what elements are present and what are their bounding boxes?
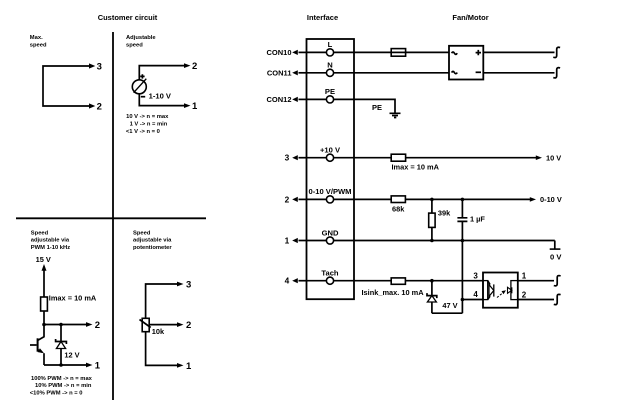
svg-text:Speed: Speed	[133, 230, 151, 236]
svg-text:2: 2	[186, 320, 191, 331]
svg-text:1-10 V: 1-10 V	[149, 92, 172, 101]
terminal PE	[307, 87, 355, 103]
zener diode ZD1 cathode bar	[56, 339, 67, 344]
wire motor L out	[483, 51, 554, 53]
label Speed adjustable via PWM 1-10 kHz	[31, 230, 70, 251]
wire 0-10V to resistor	[354, 198, 391, 200]
wire GND rail	[354, 240, 555, 242]
wire to 39k	[431, 199, 433, 213]
capacitor C 1uF	[457, 218, 467, 222]
note PWM mapping	[30, 376, 93, 397]
wire pot bottom to node 1	[146, 332, 178, 366]
stub CON11	[267, 69, 307, 78]
svg-text:4: 4	[473, 290, 478, 299]
junction GND 39k	[430, 239, 434, 243]
svg-text:CON11: CON11	[267, 69, 292, 78]
svg-text:<1 V -> n = 0: <1 V -> n = 0	[126, 129, 160, 135]
svg-text:Speed: Speed	[31, 230, 49, 236]
motor symbol ac top	[452, 52, 458, 54]
svg-text:3: 3	[285, 153, 290, 163]
arrow up 15V	[42, 264, 47, 271]
optocoupler light arrow	[497, 292, 505, 298]
svg-text:10 V: 10 V	[546, 154, 561, 163]
svg-text:+10 V: +10 V	[320, 146, 341, 155]
wire pot top to node 3	[146, 284, 178, 318]
label Speed adjustable via potentiometer	[133, 230, 172, 251]
svg-text:1: 1	[192, 101, 198, 112]
vertical divider of customer-circuit panel	[112, 32, 114, 400]
svg-text:Customer circuit: Customer circuit	[98, 13, 158, 22]
svg-text:10k: 10k	[152, 327, 165, 336]
svg-text:N: N	[327, 61, 332, 70]
interface box	[307, 39, 355, 299]
wire break N	[553, 68, 560, 78]
resistor current-limit	[41, 297, 48, 311]
wire pin2 out	[518, 299, 554, 301]
svg-text:3: 3	[97, 61, 102, 72]
junction cap tap	[461, 198, 465, 202]
svg-text:10 V -> n = max: 10 V -> n = max	[126, 114, 169, 120]
svg-text:Isink_max. 10 mA: Isink_max. 10 mA	[362, 288, 425, 297]
arrow to node 1	[177, 363, 184, 368]
arrow to node 2	[86, 322, 93, 327]
svg-text:4: 4	[285, 276, 290, 286]
wire N to motor	[354, 72, 449, 74]
transistor Q1 base lead	[30, 344, 37, 346]
svg-text:PWM 1-10 kHz: PWM 1-10 kHz	[31, 245, 70, 251]
svg-text:speed: speed	[126, 42, 143, 48]
terminal 0V bar	[550, 248, 561, 250]
wire resistor to 0-10V	[405, 198, 530, 200]
wire to zener 47V	[431, 281, 433, 296]
arrow to node 1	[184, 103, 191, 108]
svg-text:0-10 V: 0-10 V	[540, 195, 562, 204]
stub CON12	[266, 95, 306, 104]
wire to capacitor	[461, 199, 463, 217]
wire Tach to resistor	[354, 280, 391, 282]
svg-text:100% PWM -> n = max: 100% PWM -> n = max	[31, 376, 93, 382]
transistor Q1 collector lead	[38, 325, 44, 341]
optocoupler right pin block	[511, 281, 518, 300]
resistor R 68k	[391, 196, 405, 203]
zener diode ZD1 triangle	[56, 342, 65, 349]
terminal GND	[307, 228, 355, 244]
wire break pin2	[554, 294, 561, 304]
svg-text:1 µF: 1 µF	[470, 215, 485, 224]
label Max. speed	[30, 35, 47, 48]
motor M1 box	[449, 46, 483, 80]
svg-text:47 V: 47 V	[442, 301, 457, 310]
wire zener top	[60, 325, 62, 342]
junction zener 47V tap	[430, 279, 434, 283]
svg-text:39k: 39k	[438, 209, 451, 218]
svg-text:2: 2	[95, 320, 100, 331]
motor symbol plus	[476, 50, 481, 55]
svg-text:2: 2	[285, 194, 290, 204]
optocoupler LED bar	[493, 284, 495, 296]
arrow to node 3	[89, 63, 95, 68]
wire 39k to GND	[431, 227, 433, 240]
optocoupler LED leads	[488, 281, 490, 300]
stub 4	[285, 276, 307, 286]
wire PE to ground	[354, 99, 395, 113]
svg-text:Interface: Interface	[307, 13, 338, 22]
wire motor N out	[483, 72, 554, 74]
potentiometer R 10k	[142, 318, 149, 331]
optocoupler left pin block	[483, 281, 488, 300]
wire pin4	[462, 299, 483, 301]
wire to node 2	[44, 324, 87, 326]
horizontal divider of customer-circuit panel	[16, 217, 206, 219]
transistor Q1 emitter arrow	[38, 348, 44, 353]
wire source minus to node 1	[139, 94, 185, 106]
svg-text:adjustable via: adjustable via	[31, 238, 70, 244]
svg-text:Fan/Motor: Fan/Motor	[452, 13, 488, 22]
potentiometer wiper	[140, 320, 151, 328]
wire emitter down	[43, 353, 45, 365]
svg-text:<10% PWM -> n = 0: <10% PWM -> n = 0	[30, 391, 83, 397]
wire +10V to resistor	[354, 157, 391, 159]
svg-text:1 V -> n = min: 1 V -> n = min	[130, 122, 168, 128]
arrow to node 2	[184, 63, 191, 68]
svg-text:1: 1	[186, 361, 192, 372]
wire fuse to motor	[406, 51, 449, 53]
optocoupler light arrowhead	[502, 290, 507, 294]
ground symbol PE	[390, 113, 401, 117]
svg-text:CON12: CON12	[266, 95, 291, 104]
motor symbol ac bottom	[452, 71, 458, 73]
wire 15V to resistor	[43, 270, 45, 297]
svg-text:1: 1	[285, 236, 290, 246]
svg-text:10% PWM -> n = min: 10% PWM -> n = min	[35, 383, 92, 389]
wire pin1 out	[518, 280, 554, 282]
wire bottom to node 1	[44, 364, 87, 366]
note voltage mapping	[126, 114, 169, 135]
svg-text:12 V: 12 V	[64, 351, 79, 360]
terminal +10 V	[307, 146, 355, 162]
svg-text:68k: 68k	[392, 205, 405, 214]
zener ZD2 triangle	[427, 296, 436, 302]
svg-text:1: 1	[95, 360, 101, 371]
svg-text:adjustable via: adjustable via	[133, 238, 172, 244]
wire resistor to 10V	[406, 157, 537, 159]
svg-text:3: 3	[473, 271, 478, 280]
svg-text:15 V: 15 V	[36, 255, 51, 264]
arrow to node 3	[177, 282, 184, 287]
arrow to node 1	[86, 363, 93, 368]
zener ZD2 cathode bar	[427, 293, 437, 298]
plus marker	[140, 74, 144, 78]
stub 2	[285, 194, 307, 204]
terminal L	[307, 40, 355, 56]
svg-text:0 V: 0 V	[550, 253, 562, 262]
label Adjustable speed	[126, 35, 156, 48]
terminal 0-10 V/PWM	[307, 187, 355, 203]
arrow to node 2	[177, 322, 184, 327]
arrow to node 2	[89, 103, 95, 108]
wire gnd column down	[461, 241, 463, 314]
svg-text:Imax = 10 mA: Imax = 10 mA	[49, 294, 97, 303]
stub CON10	[266, 48, 306, 57]
terminal N	[307, 61, 355, 77]
svg-text:0-10 V/PWM: 0-10 V/PWM	[308, 187, 351, 196]
svg-text:2: 2	[522, 291, 527, 300]
stub 1	[285, 236, 307, 246]
svg-text:speed: speed	[30, 42, 47, 48]
terminal Tach	[307, 269, 355, 285]
svg-text:Max.: Max.	[30, 35, 43, 41]
svg-text:3: 3	[186, 279, 191, 290]
stub 3	[285, 153, 307, 163]
svg-text:L: L	[328, 40, 333, 49]
wire resistor to junction	[43, 311, 45, 325]
optocoupler LED triangle	[489, 285, 494, 297]
optocoupler U1 box	[483, 273, 518, 308]
svg-text:Tach: Tach	[321, 269, 339, 278]
motor symbol minus	[476, 71, 481, 73]
fuse F1	[391, 49, 405, 57]
wire break L	[553, 47, 560, 57]
wire L to fuse	[354, 51, 391, 53]
svg-text:PE: PE	[325, 87, 335, 96]
transistor Q1 base bar	[37, 338, 39, 351]
resistor R Isink	[391, 278, 405, 284]
junction pin4	[461, 298, 465, 302]
junction zener bottom	[59, 363, 63, 367]
svg-text:Imax = 10 mA: Imax = 10 mA	[392, 163, 440, 172]
wire resistor to optocoupler	[405, 280, 483, 282]
wire down to 0V	[554, 241, 556, 250]
svg-text:PE: PE	[372, 103, 382, 112]
svg-text:potentiometer: potentiometer	[133, 245, 172, 251]
wire wiper to node 2	[149, 324, 178, 326]
junction GND cap	[461, 239, 465, 243]
svg-text:GND: GND	[322, 228, 339, 237]
wire source plus to node 2	[139, 66, 185, 80]
voltage source B1	[132, 79, 146, 94]
svg-text:1: 1	[522, 272, 527, 281]
resistor R Imax	[391, 154, 405, 161]
svg-text:2: 2	[97, 101, 102, 112]
resistor R 39k	[429, 213, 435, 227]
arrow 0-10V	[530, 197, 536, 202]
svg-text:CON10: CON10	[266, 48, 291, 57]
junction collector node	[42, 323, 46, 327]
wire break pin1	[554, 276, 561, 286]
wire zener bottom	[60, 349, 62, 366]
svg-text:2: 2	[192, 61, 197, 72]
optocoupler photodiode	[508, 287, 512, 293]
arrow 10V	[536, 155, 542, 160]
wire max-speed jumper	[43, 66, 90, 106]
transistor Q1 emitter lead	[38, 350, 42, 353]
wire cap to GND	[461, 221, 463, 240]
junction 39k tap	[430, 198, 434, 202]
tie wire zener to gnd column	[432, 312, 463, 314]
wire zener to tie	[431, 302, 433, 313]
minus marker	[141, 96, 145, 98]
svg-text:Adjustable: Adjustable	[126, 35, 156, 41]
junction zener tap	[59, 323, 63, 327]
